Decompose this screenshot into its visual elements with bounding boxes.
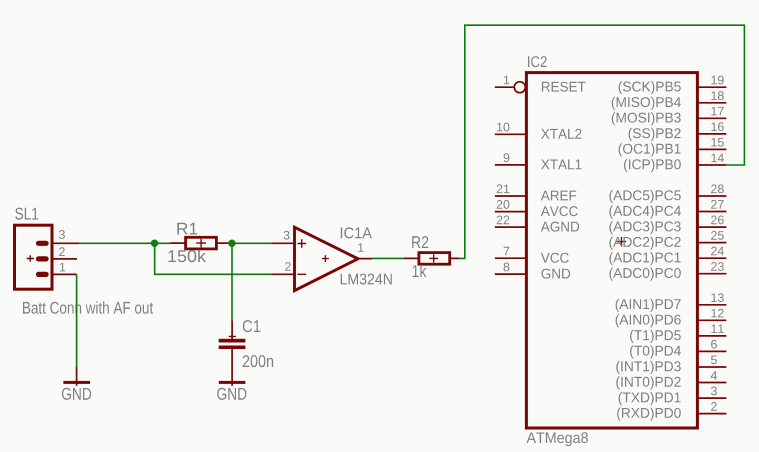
label IC1A bbox=[341, 227, 372, 238]
IC2 pin name VCC bbox=[541, 253, 569, 263]
IC2 pin number 9 bbox=[504, 153, 510, 162]
IC2 pin number 15 bbox=[711, 138, 723, 147]
IC2 pin number 1 bbox=[504, 76, 509, 85]
label 150k bbox=[168, 250, 206, 263]
IC2 pin name (AIN1)PD7 bbox=[616, 299, 681, 312]
SL1 pin number 1 bbox=[60, 263, 65, 272]
IC2 pin number 16 bbox=[711, 122, 723, 131]
wire op-amp output to R2 bbox=[372, 257, 403, 259]
label Batt Conn with AF out bbox=[23, 301, 153, 314]
IC2 pin name XTAL2 bbox=[541, 129, 581, 139]
IC2 pin name (MOSI)PB3 bbox=[612, 112, 681, 125]
IC2 pin name (INT1)PD3 bbox=[616, 361, 680, 374]
IC2 RESET inversion bubble bbox=[514, 82, 525, 93]
SL1 pin number 2 bbox=[59, 247, 65, 256]
ground under C1 bbox=[219, 366, 246, 385]
IC2 pin name (SCK)PB5 bbox=[619, 81, 681, 94]
IC2 pin name (T1)PD5 bbox=[630, 330, 681, 343]
label R2 bbox=[412, 236, 428, 248]
ground under SL1 bbox=[63, 366, 90, 385]
wire R1 to op-amp pin3 bbox=[232, 242, 272, 244]
label SL1 bbox=[15, 208, 38, 220]
IC2 pin name RESET bbox=[542, 82, 586, 92]
IC2 pin number 19 bbox=[711, 76, 723, 85]
IC2 pin number 5 bbox=[711, 356, 717, 365]
label R1 bbox=[177, 223, 197, 235]
IC2 pin number 6 bbox=[711, 340, 717, 349]
IC2 pin number 23 bbox=[711, 262, 724, 271]
label 200n bbox=[243, 355, 273, 367]
IC2 pin number 17 bbox=[711, 107, 723, 116]
IC2 pin number 24 bbox=[711, 247, 724, 256]
IC2 pin number 7 bbox=[504, 247, 510, 256]
label ATMega8 bbox=[527, 432, 588, 446]
IC2 pin number 11 bbox=[711, 325, 723, 334]
IC2 pin number 20 bbox=[497, 200, 510, 209]
op-amp pin number 1 bbox=[358, 243, 363, 252]
wire SL1 pin3 to R1 bbox=[79, 242, 171, 244]
wire R2 around top to IC2 pin 14 bbox=[459, 25, 744, 258]
IC2 pin number 2 bbox=[711, 402, 717, 411]
IC2 left pin leads bbox=[495, 87, 527, 274]
IC2 pin number 25 bbox=[711, 231, 724, 240]
IC2 origin cross bbox=[617, 237, 626, 246]
SL1 pin number 3 bbox=[59, 230, 65, 239]
label GND (C1) bbox=[217, 388, 246, 400]
IC2 pin name (OC1)PB1 bbox=[619, 143, 681, 156]
junction dot B bbox=[228, 240, 235, 247]
IC2 pin name XTAL1 bbox=[541, 160, 581, 170]
resistor R2 bbox=[404, 253, 459, 265]
IC2 pin name (ADC4)PC4 bbox=[609, 205, 681, 218]
IC2 pin number 27 bbox=[711, 200, 724, 209]
IC2 pin name AGND bbox=[541, 222, 579, 232]
junction dot A bbox=[151, 240, 158, 247]
wire junction A down to op-amp inverting input bbox=[155, 243, 272, 274]
IC2 pin number 8 bbox=[504, 263, 510, 272]
IC2 pin name (ADC2)PC2 bbox=[609, 237, 680, 250]
IC2 pin number 10 bbox=[497, 123, 509, 132]
IC2 pin number 13 bbox=[711, 293, 723, 302]
IC2 pin number 26 bbox=[711, 216, 724, 225]
IC2 pin name (T0)PD4 bbox=[630, 345, 681, 358]
IC2 pin name AREF bbox=[541, 191, 576, 201]
IC2 pin number 12 bbox=[711, 309, 723, 318]
label IC2 bbox=[528, 56, 547, 67]
IC2 pin number 28 bbox=[711, 184, 724, 193]
op-amp pin number 3 bbox=[284, 231, 290, 240]
IC2 pin number 21 bbox=[497, 184, 510, 193]
IC2 pin number 4 bbox=[711, 371, 717, 380]
label LM324N bbox=[341, 274, 392, 285]
IC2 pin name (ADC3)PC3 bbox=[609, 221, 680, 234]
label GND (SL1) bbox=[62, 388, 91, 400]
IC2 pin number 18 bbox=[711, 91, 723, 100]
IC2 right pin leads bbox=[698, 87, 727, 413]
label C1 bbox=[243, 320, 260, 332]
IC2 pin number 14 bbox=[711, 154, 724, 163]
connector SL1 bbox=[15, 225, 80, 289]
capacitor C1 bbox=[219, 320, 246, 366]
IC U2 ATMega8 body bbox=[526, 73, 697, 428]
label 1k bbox=[413, 265, 427, 277]
op-amp pin number 2 bbox=[285, 262, 291, 271]
IC2 pin name GND bbox=[542, 269, 571, 279]
IC2 pin name (ADC5)PC5 bbox=[609, 190, 680, 203]
IC2 pin name (AIN0)PD6 bbox=[616, 314, 681, 327]
IC2 pin name (INT0)PD2 bbox=[616, 376, 680, 389]
IC2 pin name AVCC bbox=[541, 206, 578, 216]
wire SL1 pin1 down to ground bbox=[76, 274, 78, 366]
IC2 pin name (TXD)PD1 bbox=[619, 392, 681, 405]
resistor R1 bbox=[171, 237, 232, 249]
IC2 pin name (MISO)PB4 bbox=[612, 97, 681, 110]
wire junction B down to C1 bbox=[231, 243, 233, 320]
op-amp IC1A bbox=[272, 227, 373, 290]
IC2 pin name (ADC0)PC0 bbox=[609, 268, 680, 281]
IC2 pin name (ICP)PB0 bbox=[624, 159, 681, 172]
IC2 pin number 3 bbox=[711, 387, 717, 396]
IC2 pin name (ADC1)PC1 bbox=[609, 252, 680, 265]
IC2 pin name (SS)PB2 bbox=[629, 128, 681, 141]
IC2 pin number 22 bbox=[497, 216, 510, 225]
IC2 pin name (RXD)PD0 bbox=[617, 408, 681, 421]
